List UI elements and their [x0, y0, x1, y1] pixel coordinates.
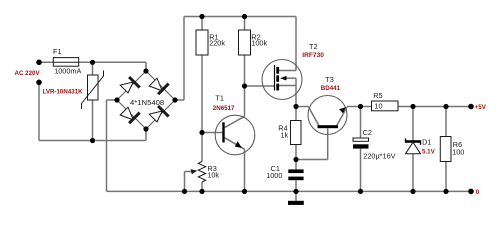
svg-text:5.1V: 5.1V — [422, 149, 436, 156]
svg-text:4*1N5408: 4*1N5408 — [130, 98, 164, 107]
svg-text:1000: 1000 — [266, 171, 282, 180]
svg-text:100k: 100k — [251, 38, 267, 47]
svg-text:1000mA: 1000mA — [54, 66, 81, 75]
svg-text:100: 100 — [452, 148, 464, 157]
svg-text:C2: C2 — [363, 128, 372, 137]
svg-text:0: 0 — [476, 189, 480, 196]
svg-text:T1: T1 — [215, 93, 224, 102]
svg-text:1k: 1k — [281, 131, 289, 140]
svg-text:220µ*16V: 220µ*16V — [363, 151, 395, 160]
svg-text:IRF730: IRF730 — [302, 52, 324, 59]
svg-text:T2: T2 — [309, 42, 318, 51]
svg-text:F1: F1 — [53, 47, 62, 56]
svg-text:220k: 220k — [209, 38, 225, 47]
svg-text:D1: D1 — [422, 137, 431, 146]
svg-text:BD441: BD441 — [321, 85, 341, 92]
svg-text:R5: R5 — [373, 91, 382, 100]
svg-text:T3: T3 — [325, 75, 334, 84]
svg-text:AC 220V: AC 220V — [15, 70, 41, 77]
svg-text:+5V: +5V — [475, 104, 487, 111]
svg-text:LVR-10N431K: LVR-10N431K — [43, 89, 84, 96]
svg-text:10: 10 — [374, 102, 382, 111]
svg-text:10k: 10k — [207, 171, 219, 180]
svg-text:2N6517: 2N6517 — [213, 105, 235, 112]
